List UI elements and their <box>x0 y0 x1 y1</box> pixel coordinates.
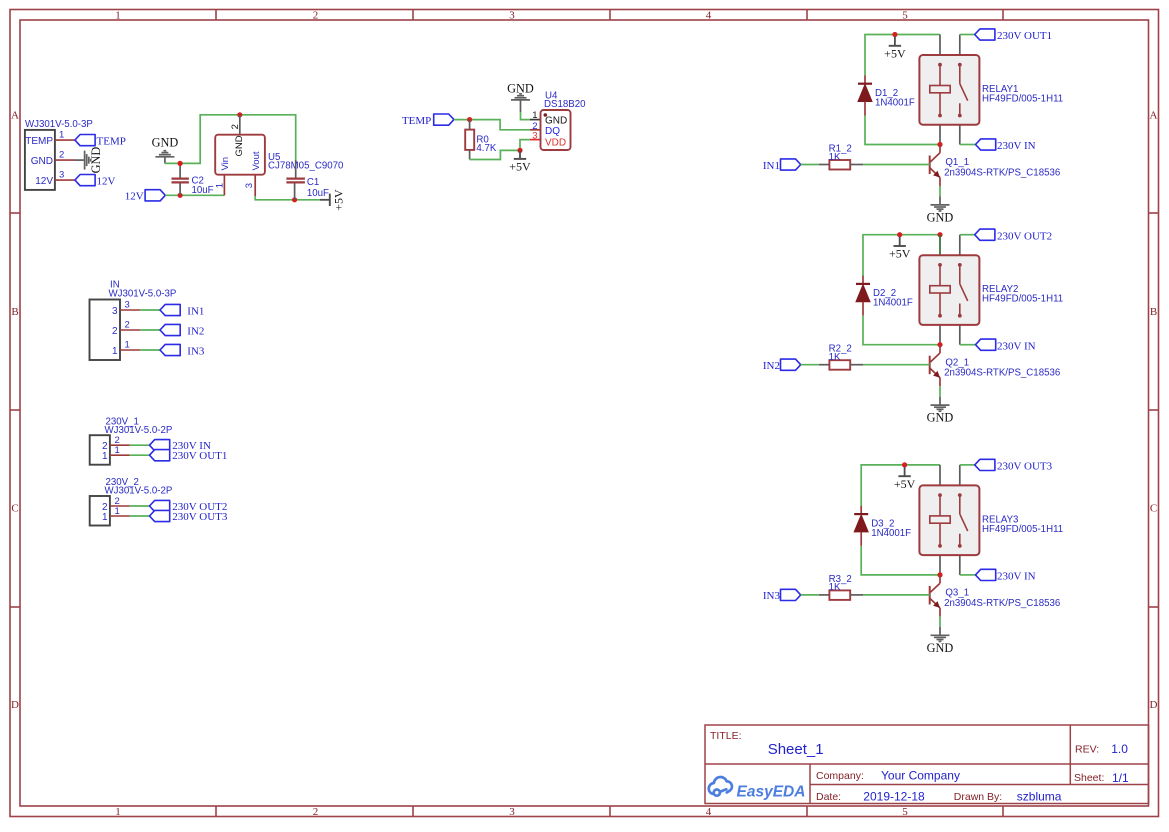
net flag 12V (regulator input) <box>125 190 166 203</box>
diode D2_2 1N4001F <box>856 276 913 316</box>
svg-text:B: B <box>11 306 18 318</box>
svg-text:3: 3 <box>509 806 515 818</box>
junction +5V (channel 2) <box>897 232 902 237</box>
svg-text:3: 3 <box>532 131 537 142</box>
svg-text:4.7K: 4.7K <box>476 143 496 154</box>
transistor Q1_1 2n3904S-RTK/PS_C18536 <box>930 145 940 187</box>
net flag TEMP (connector pin 1) <box>75 135 126 148</box>
junction at collector (channel 1) <box>937 142 942 147</box>
svg-text:1: 1 <box>214 183 225 188</box>
svg-text:A: A <box>1150 110 1158 122</box>
svg-text:EasyEDA: EasyEDA <box>737 784 806 801</box>
ground symbol GND (DS18B20) <box>507 81 534 112</box>
svg-text:IN2: IN2 <box>763 360 780 372</box>
svg-text:2: 2 <box>230 124 241 129</box>
svg-text:2: 2 <box>313 806 319 818</box>
net flag 230V OUT2 <box>960 229 1052 242</box>
svg-text:1: 1 <box>115 806 121 818</box>
svg-text:GND: GND <box>31 156 53 167</box>
svg-text:DQ: DQ <box>545 126 560 137</box>
capacitor C1 10uF <box>286 160 329 200</box>
wire diode anode to transistor collector node (channel 3) <box>861 546 940 575</box>
svg-text:+5V: +5V <box>884 47 906 61</box>
ground symbol GND (channel 2) <box>927 397 954 425</box>
svg-text:12V: 12V <box>35 176 53 187</box>
transistor Q3_1 2n3904S-RTK/PS_C18536 <box>930 575 940 617</box>
wire IN1 to base resistor <box>801 164 819 166</box>
junction at collector (channel 3) <box>937 572 942 577</box>
svg-text:GND: GND <box>152 136 179 150</box>
svg-text:1N4001F: 1N4001F <box>873 298 913 309</box>
wire to net flag 230V OUT1 <box>130 454 150 456</box>
diode D3_2 1N4001F <box>854 506 911 546</box>
svg-text:10uF: 10uF <box>192 185 214 196</box>
wire to net flag 230V OUT2 <box>130 505 150 507</box>
net flag IN3 <box>763 589 801 602</box>
svg-text:1: 1 <box>115 10 121 22</box>
svg-text:10uF: 10uF <box>307 188 329 199</box>
net flag 230V OUT3 <box>150 510 228 523</box>
net flag IN3 <box>160 344 205 357</box>
junction at C2 bottom <box>178 193 183 198</box>
wire R0 bottom to VDD / +5V <box>470 150 520 159</box>
net flag 230V OUT2 <box>150 500 228 513</box>
svg-text:1K: 1K <box>829 582 841 593</box>
resistor R3_2 1K <box>819 574 863 600</box>
ground symbol GND (near C2) <box>152 136 179 164</box>
connector 230V_2 WJ301V-5.0-2P <box>90 477 173 525</box>
net flag 230V OUT3 <box>960 459 1053 472</box>
svg-text:C1: C1 <box>307 177 319 188</box>
svg-text:12V: 12V <box>125 191 144 203</box>
connector IN WJ301V-5.0-3P <box>90 280 177 361</box>
power symbol +5V (rotated, right of C1) <box>320 189 345 211</box>
svg-text:3: 3 <box>125 300 130 311</box>
svg-text:1: 1 <box>125 340 130 351</box>
svg-text:5: 5 <box>902 806 908 818</box>
svg-text:+5V: +5V <box>509 160 531 174</box>
svg-text:VDD: VDD <box>545 138 566 149</box>
svg-text:+5V: +5V <box>889 247 911 261</box>
svg-text:1.0: 1.0 <box>1111 742 1128 756</box>
svg-text:TEMP: TEMP <box>25 136 53 147</box>
svg-text:4: 4 <box>706 806 712 818</box>
wire to net flag 230V IN <box>130 444 150 446</box>
net flag 230V OUT1 <box>960 29 1052 42</box>
svg-text:230V OUT1: 230V OUT1 <box>172 450 227 462</box>
svg-text:GND: GND <box>927 211 954 225</box>
diode D1_2 1N4001F <box>858 76 915 116</box>
connector 230V_1 WJ301V-5.0-2P <box>90 416 173 464</box>
svg-text:IN3: IN3 <box>763 590 781 602</box>
wire to net flag IN1 <box>140 309 160 311</box>
wire to net flag IN2 <box>140 329 160 331</box>
svg-text:C: C <box>1150 503 1157 515</box>
junction +5V (channel 1) <box>892 32 897 37</box>
svg-text:Sheet:: Sheet: <box>1074 772 1104 784</box>
wire gnd to top rail <box>165 115 296 164</box>
svg-text:IN3: IN3 <box>187 346 205 358</box>
wire IN2 to base resistor <box>801 364 819 366</box>
svg-text:230V IN: 230V IN <box>997 571 1036 583</box>
svg-text:1N4001F: 1N4001F <box>871 528 911 539</box>
svg-text:WJ301V-5.0-3P: WJ301V-5.0-3P <box>109 288 177 299</box>
svg-text:1: 1 <box>115 445 120 456</box>
svg-text:TITLE:: TITLE: <box>710 730 742 742</box>
svg-text:1: 1 <box>102 512 108 523</box>
wire resistor to base (channel 3) <box>863 594 929 596</box>
svg-text:230V OUT3: 230V OUT3 <box>172 511 228 523</box>
junction at R0 top <box>467 117 472 122</box>
svg-text:+5V: +5V <box>331 189 345 211</box>
svg-text:szbluma: szbluma <box>1017 790 1062 804</box>
company row <box>816 769 960 783</box>
net flag 12V (connector pin 3) <box>75 175 116 188</box>
svg-text:D: D <box>1150 699 1158 711</box>
svg-text:2n3904S-RTK/PS_C18536: 2n3904S-RTK/PS_C18536 <box>944 368 1060 379</box>
wire +5V rail (channel 1) <box>865 35 940 77</box>
regulator U5 CJ78M05_C9070 <box>214 115 344 196</box>
wire U5 pin3 to +5V <box>255 196 320 200</box>
svg-text:GND: GND <box>545 115 567 126</box>
title block <box>705 725 1149 804</box>
svg-text:B: B <box>1150 306 1157 318</box>
svg-text:2n3904S-RTK/PS_C18536: 2n3904S-RTK/PS_C18536 <box>944 168 1060 179</box>
svg-text:A: A <box>11 110 19 122</box>
wire diode anode to transistor collector node (channel 1) <box>865 116 940 145</box>
svg-text:IN1: IN1 <box>763 160 780 172</box>
power symbol +5V (DS18B20) <box>509 150 531 173</box>
svg-text:2: 2 <box>112 326 118 337</box>
junction at collector (channel 2) <box>937 342 942 347</box>
svg-text:5: 5 <box>902 10 908 22</box>
svg-text:HF49FD/005-1H11: HF49FD/005-1H11 <box>982 94 1063 105</box>
relay RELAY3 HF49FD/005-1H11 <box>919 465 1063 575</box>
svg-text:Drawn By:: Drawn By: <box>954 791 1002 803</box>
svg-text:2: 2 <box>125 320 130 331</box>
net flag IN1 <box>160 304 204 317</box>
net flag 230V IN (channel 1) <box>960 139 1036 152</box>
svg-text:2n3904S-RTK/PS_C18536: 2n3904S-RTK/PS_C18536 <box>944 598 1060 609</box>
svg-text:230V IN: 230V IN <box>997 340 1036 352</box>
resistor R2_2 1K <box>819 344 863 370</box>
svg-text:GND: GND <box>927 411 954 425</box>
svg-text:230V OUT1: 230V OUT1 <box>997 30 1052 42</box>
svg-text:3: 3 <box>59 170 64 181</box>
svg-text:C: C <box>11 503 18 515</box>
EasyEDA logo <box>709 777 732 796</box>
svg-text:Date:: Date: <box>816 791 841 803</box>
capacitor C2 10uF <box>172 165 214 196</box>
relay RELAY2 HF49FD/005-1H11 <box>919 235 1063 345</box>
svg-text:1: 1 <box>102 451 108 462</box>
svg-text:3: 3 <box>244 183 255 188</box>
svg-text:Sheet_1: Sheet_1 <box>768 741 824 758</box>
svg-text:1: 1 <box>59 130 64 141</box>
svg-text:Vout: Vout <box>251 151 262 170</box>
svg-text:DS18B20: DS18B20 <box>544 99 586 110</box>
svg-text:TEMP: TEMP <box>97 136 126 148</box>
svg-text:2: 2 <box>59 150 64 161</box>
svg-text:Vin: Vin <box>220 157 231 171</box>
transistor Q2_1 2n3904S-RTK/PS_C18536 <box>930 345 940 387</box>
svg-text:1: 1 <box>115 506 120 517</box>
svg-text:230V OUT2: 230V OUT2 <box>997 230 1052 242</box>
wire diode anode to transistor collector node (channel 2) <box>863 316 940 345</box>
svg-text:2019-12-18: 2019-12-18 <box>863 790 925 804</box>
wire 12V to U5 pin1 <box>165 194 224 196</box>
svg-text:3: 3 <box>509 10 515 22</box>
svg-text:1/1: 1/1 <box>1112 771 1129 785</box>
svg-text:D: D <box>11 699 19 711</box>
wire to net flag IN3 <box>140 349 160 351</box>
svg-text:12V: 12V <box>97 176 116 188</box>
svg-text:HF49FD/005-1H11: HF49FD/005-1H11 <box>982 294 1063 305</box>
svg-text:GND: GND <box>234 135 245 156</box>
svg-text:REV:: REV: <box>1075 744 1099 756</box>
svg-text:4: 4 <box>706 10 712 22</box>
svg-text:GND: GND <box>89 147 103 174</box>
net flag 230V IN (channel 2) <box>960 339 1036 352</box>
net flag TEMP (to DS18B20) <box>402 114 454 127</box>
svg-text:Your Company: Your Company <box>881 769 960 783</box>
wire IN3 to base resistor <box>801 594 819 596</box>
svg-text:1: 1 <box>112 346 118 357</box>
resistor R0 4.7K <box>465 120 497 160</box>
net flag 230V OUT1 <box>150 450 228 463</box>
svg-text:1K: 1K <box>829 352 841 363</box>
wire resistor to base (channel 2) <box>863 364 929 366</box>
net flag IN2 <box>763 359 801 372</box>
ground symbol GND (channel 1) <box>927 197 954 225</box>
ground symbol GND (channel 3) <box>927 627 954 655</box>
wire +5V rail (channel 2) <box>863 235 940 277</box>
wire emitter to ground (channel 2) <box>939 386 941 397</box>
wire to net flag 230V OUT3 <box>130 515 150 517</box>
junction at C1 bottom <box>292 197 297 202</box>
svg-text:1N4001F: 1N4001F <box>875 98 915 109</box>
wire emitter to ground (channel 1) <box>939 186 941 197</box>
net flag 230V IN (channel 3) <box>960 569 1036 582</box>
svg-text:3: 3 <box>112 306 118 317</box>
svg-text:IN1: IN1 <box>187 306 204 318</box>
power symbol +5V (channel 1) <box>884 37 906 61</box>
junction +5V (channel 3) <box>902 462 907 467</box>
junction at U5 pin2 <box>237 112 242 117</box>
connector P1 WJ301V-5.0-3P (TEMP/GND/12V) <box>25 119 93 190</box>
junction at coil pin (channel 2) <box>937 232 942 237</box>
wire gnd to DS18B20 pin1 <box>521 112 530 120</box>
junction at C2 top <box>178 161 183 166</box>
svg-text:WJ301V-5.0-3P: WJ301V-5.0-3P <box>25 119 93 130</box>
date row <box>816 790 1062 804</box>
wire +5V rail (channel 3) <box>861 465 940 507</box>
junction at +5V (DS18B20) <box>517 148 522 153</box>
ground symbol at connector pin 2 <box>74 147 103 174</box>
wire resistor to base (channel 1) <box>863 164 929 166</box>
svg-text:HF49FD/005-1H11: HF49FD/005-1H11 <box>982 524 1063 535</box>
net flag IN1 <box>763 159 801 172</box>
rev cell <box>1075 742 1128 756</box>
svg-text:230V OUT3: 230V OUT3 <box>997 461 1053 473</box>
temperature sensor U4 DS18B20 <box>530 91 586 151</box>
svg-text:IN2: IN2 <box>187 326 204 338</box>
resistor R1_2 1K <box>819 144 863 170</box>
net flag IN2 <box>160 324 204 337</box>
svg-text:2: 2 <box>313 10 319 22</box>
svg-text:+5V: +5V <box>894 477 916 491</box>
svg-text:GND: GND <box>927 641 954 655</box>
title text <box>710 730 824 758</box>
svg-text:Company:: Company: <box>816 770 864 782</box>
svg-text:230V IN: 230V IN <box>997 140 1036 152</box>
power symbol +5V (channel 2) <box>889 237 911 261</box>
sheet cell <box>1074 771 1129 785</box>
wire emitter to ground (channel 3) <box>939 616 941 627</box>
svg-text:TEMP: TEMP <box>402 115 431 127</box>
wire TEMP to DQ <box>454 120 530 130</box>
svg-text:1: 1 <box>532 110 537 121</box>
net flag 230V IN <box>150 440 211 453</box>
svg-text:1K: 1K <box>829 152 841 163</box>
power symbol +5V (channel 3) <box>894 467 916 491</box>
svg-text:CJ78M05_C9070: CJ78M05_C9070 <box>268 161 344 172</box>
relay RELAY1 HF49FD/005-1H11 <box>919 35 1063 145</box>
